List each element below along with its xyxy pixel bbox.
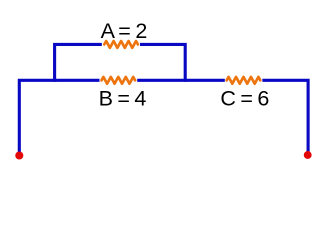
wire: left branch riser and top wire to resistor A [55,44,102,81]
node: left terminal (red dot) [15,151,23,159]
resistor C (zigzag) [227,77,261,84]
resistor B (zigzag) [102,77,136,84]
wire: middle segment between resistor B and resistor C [137,79,225,82]
node: right terminal (red dot) [304,151,312,159]
svg-text:A = 2: A = 2 [101,19,147,43]
svg-text:C = 6: C = 6 [220,87,269,111]
wire: right lead from resistor C to corner and down to right terminal [262,80,308,152]
resistor A (zigzag) [104,41,138,48]
wire: left lead from left terminal up and right to resistor B [19,80,99,153]
svg-text:B = 4: B = 4 [99,87,147,111]
wire: top wire from resistor A to right branch riser down to main wire [140,44,185,81]
